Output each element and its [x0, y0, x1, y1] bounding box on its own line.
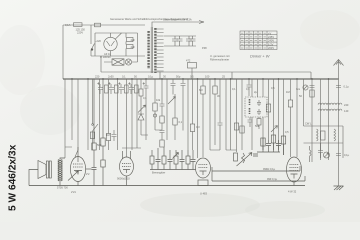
svg-text:0,1µ: 0,1µ	[344, 85, 350, 89]
wire transformer top	[60, 158, 65, 160]
trimmer arrow TP1	[271, 79, 278, 150]
svg-text:50k: 50k	[255, 124, 260, 128]
svg-text:U 100/30: U 100/30	[100, 55, 111, 59]
wire antenna drop	[338, 79, 340, 186]
wire drop x290	[290, 79, 292, 100]
svg-text:0,1A: 0,1A	[65, 23, 71, 27]
wire drop x78	[75, 79, 78, 157]
wire drop x312	[311, 79, 313, 162]
svg-text:10k: 10k	[156, 98, 161, 102]
capacitor C1 4uF	[126, 33, 133, 45]
resistor R8	[153, 79, 157, 130]
wire drop x252	[251, 79, 253, 150]
resistor R1	[188, 63, 197, 80]
resistor R2	[106, 79, 110, 150]
svg-text:140: 140	[344, 109, 349, 113]
svg-text:472: 472	[186, 59, 191, 63]
svg-text:0,5: 0,5	[271, 86, 275, 90]
wire right x343	[342, 126, 344, 158]
svg-text:245V: 245V	[268, 35, 274, 39]
resistor R4	[115, 85, 119, 93]
capacitor C20	[92, 168, 97, 186]
svg-text:2x50: 2x50	[108, 75, 114, 79]
resistor R17	[101, 160, 105, 186]
svg-text:0,3: 0,3	[196, 125, 200, 129]
resistor R21	[186, 150, 190, 170]
svg-text:9000±Ω/10: 9000±Ω/10	[117, 177, 130, 181]
wire drop x283	[283, 79, 285, 155]
transformer TR1 secondary	[154, 28, 156, 73]
svg-text:4µF: 4µF	[131, 45, 136, 49]
resistor R3	[105, 85, 109, 93]
resistor R20	[173, 150, 179, 170]
svg-text:999 0,1µ: 999 0,1µ	[267, 177, 278, 181]
svg-text:220V: 220V	[77, 31, 83, 35]
resistor R15	[92, 79, 96, 167]
svg-text:50p: 50p	[176, 75, 181, 79]
rectifier tube V1	[104, 37, 117, 50]
resistor R25	[213, 79, 217, 145]
resistor R29	[266, 104, 270, 112]
transformer TR1 primary	[147, 31, 149, 69]
wire drop x242	[241, 79, 243, 150]
svg-text:0,1: 0,1	[232, 87, 236, 91]
svg-text:CW L: CW L	[305, 122, 312, 126]
svg-text:4µF: 4µF	[131, 38, 136, 42]
capacitor C2 4uF	[126, 45, 133, 57]
tube V3	[120, 151, 134, 186]
wire drop x257	[257, 79, 259, 97]
svg-text:203V: 203V	[268, 46, 274, 50]
svg-text:6,3V: 6,3V	[268, 42, 274, 46]
wire drop x328	[328, 79, 330, 160]
resistor R14	[198, 180, 208, 186]
capacitor C21	[156, 148, 161, 170]
resistor R6	[135, 85, 139, 93]
wire drop x303	[303, 79, 305, 126]
svg-text:Skalenlampen 6,3V 0,3A: Skalenlampen 6,3V 0,3A	[163, 18, 192, 22]
capacitor C22	[168, 150, 173, 170]
capacitor C4	[177, 36, 183, 46]
wire drop x126	[126, 79, 128, 157]
wire drop x132	[131, 79, 133, 150]
resistor R13	[321, 131, 326, 140]
svg-text:Gm: Gm	[296, 87, 300, 91]
svg-text:500: 500	[97, 143, 102, 147]
wire transformer bottom	[59, 181, 61, 186]
coil bank L1	[318, 103, 342, 111]
capacitor C5	[186, 36, 192, 46]
wire secondary bottom	[160, 72, 311, 79]
wire drop x226	[225, 79, 227, 150]
volume pot P1	[234, 153, 259, 167]
capacitor C23	[180, 150, 185, 170]
svg-text:0,1: 0,1	[179, 120, 183, 124]
fuse F1	[74, 23, 83, 27]
wire drop x278	[278, 79, 280, 150]
wire drop x197	[197, 79, 199, 158]
wire bottom bus	[29, 185, 305, 187]
capacitor C26	[276, 140, 281, 152]
diode D1	[138, 105, 146, 135]
wire tie mid2	[210, 149, 237, 151]
resistor R23	[271, 135, 275, 152]
resistor R24	[281, 136, 285, 155]
wire drop x167	[166, 79, 168, 140]
capacitor C6	[190, 36, 196, 46]
resistor R12	[310, 90, 314, 97]
capacitor C29	[336, 154, 341, 156]
svg-text:2'21: 2'21	[71, 190, 76, 194]
resistor R5	[125, 85, 129, 93]
switch S1	[92, 79, 98, 150]
capacitor C10	[129, 84, 134, 94]
switch S0	[91, 25, 95, 56]
wire drop x137	[136, 79, 138, 148]
resistor R7	[139, 79, 143, 114]
wire drop x203	[202, 79, 204, 86]
resistor R27	[234, 123, 238, 130]
resistor R10	[160, 140, 164, 147]
coil L2	[317, 129, 319, 141]
output transformer TR2	[58, 160, 62, 182]
wire drop x220	[218, 79, 223, 150]
wire heater rows	[164, 36, 196, 46]
wire coupling tie	[150, 169, 196, 171]
wire feedback line 2	[212, 167, 305, 181]
svg-text:0,1: 0,1	[246, 87, 250, 91]
resistor urdox RU	[104, 56, 138, 65]
tuning gang G1	[324, 152, 330, 158]
svg-text:5705 700: 5705 700	[57, 186, 68, 190]
speaker LS1	[38, 161, 51, 179]
wire left frame	[62, 25, 64, 79]
wire taps	[157, 29, 164, 71]
svg-text:0,1µ: 0,1µ	[148, 75, 154, 79]
capacitor C28	[112, 130, 117, 141]
svg-text:U. gemessen mit: U. gemessen mit	[210, 54, 230, 58]
wire mains top line	[63, 24, 145, 26]
wire drop x88	[87, 79, 89, 150]
capacitor C18	[336, 86, 341, 88]
coil L3	[334, 129, 336, 141]
svg-text:P48: P48	[202, 46, 207, 50]
svg-text:0,1: 0,1	[122, 75, 126, 79]
svg-text:999Ω 0,1µ: 999Ω 0,1µ	[263, 167, 276, 171]
antenna A1	[334, 60, 344, 80]
capacitor C15	[181, 79, 186, 131]
svg-text:Dinkel + W: Dinkel + W	[250, 54, 271, 59]
capacitor C25	[266, 140, 271, 152]
svg-text:240V: 240V	[268, 39, 274, 43]
svg-text:~220: ~220	[95, 39, 101, 43]
svg-text:2'2: 2'2	[86, 172, 90, 176]
wire arrow to dial lamps	[152, 22, 204, 27]
wire AF tie	[257, 151, 280, 153]
trimmer Gm	[303, 85, 308, 90]
capacitor C11 electrolytic	[144, 79, 149, 140]
wire cap right	[137, 33, 139, 56]
IF transformer IF1	[245, 97, 267, 117]
capacitor C12	[160, 79, 165, 116]
svg-text:240: 240	[344, 103, 349, 107]
transformer TR1 core	[151, 27, 153, 73]
capacitor C24	[191, 150, 196, 170]
wire drop x210	[209, 79, 211, 150]
svg-text:U 483: U 483	[200, 192, 207, 196]
svg-text:6,3: 6,3	[199, 88, 203, 92]
svg-text:100: 100	[205, 75, 210, 79]
plug P0	[95, 23, 101, 27]
svg-text:2µ: 2µ	[254, 90, 257, 94]
resistor R11	[190, 79, 194, 150]
svg-text:5 W 646/2x/3x: 5 W 646/2x/3x	[8, 144, 19, 211]
capacitor C27	[247, 79, 252, 96]
resistor R19	[162, 147, 166, 170]
svg-text:+V: +V	[268, 31, 272, 35]
svg-text:Bremsgitter: Bremsgitter	[152, 171, 165, 175]
wire drop x268	[268, 79, 270, 140]
capacitor C19	[318, 143, 323, 160]
capacitor C13	[160, 131, 165, 141]
wire drop x65	[64, 79, 66, 158]
capacitor C3	[172, 36, 178, 46]
resistor R16	[101, 79, 105, 160]
wire speaker down	[29, 170, 38, 186]
svg-text:1M: 1M	[286, 90, 290, 94]
feedback arrow	[68, 171, 79, 181]
resistor R26	[90, 132, 94, 139]
wire drop x117	[117, 79, 119, 150]
wire tie mid1	[65, 130, 162, 148]
capacitor C17	[310, 86, 315, 88]
capacitor C8	[109, 84, 114, 94]
wire anode row	[95, 33, 138, 56]
svg-text:0,5: 0,5	[190, 75, 194, 79]
IF sub cluster	[248, 117, 262, 129]
tube V2 output	[70, 147, 85, 186]
resistor R30	[168, 94, 177, 140]
svg-text:0,5: 0,5	[285, 130, 289, 134]
bus junction dots	[71, 78, 329, 80]
capacitor C14	[171, 79, 176, 95]
wire anode diag	[115, 33, 121, 39]
svg-text:4 W 32: 4 W 32	[288, 190, 297, 194]
wire right h143	[304, 142, 344, 144]
wire drop x320	[320, 79, 322, 158]
wire drop x236	[236, 79, 238, 152]
resistor R18	[150, 150, 154, 170]
resistor R28	[240, 126, 244, 133]
svg-text:1M: 1M	[106, 133, 110, 137]
wire drop x188	[187, 79, 189, 150]
coil L4	[310, 146, 312, 162]
wire right h126	[304, 125, 344, 127]
wire drop x72	[71, 79, 73, 140]
voltage table	[240, 31, 277, 50]
svg-text:0,1µ: 0,1µ	[344, 153, 350, 157]
resistor R9	[160, 116, 164, 130]
wire power bottom	[101, 56, 160, 72]
svg-text:0,1: 0,1	[143, 96, 147, 100]
wire tube bottom	[110, 51, 112, 56]
wire drop x230	[230, 79, 232, 150]
wire drop x263	[262, 79, 264, 150]
wire drop x297	[296, 79, 298, 157]
wire main bus	[63, 78, 339, 80]
capacitor C9	[119, 84, 124, 94]
ground GND	[334, 186, 344, 190]
tube V5	[287, 157, 302, 186]
polarity plus marks	[97, 82, 145, 84]
wire cathode row	[91, 55, 145, 57]
resistor R22	[261, 138, 265, 152]
capacitor C7	[98, 84, 103, 94]
wire drop x97	[99, 79, 101, 150]
wire feedback line 1	[212, 166, 300, 171]
table cell marks	[241, 33, 266, 48]
tube V4	[196, 158, 211, 178]
svg-text:Röhrenvoltmeter: Röhrenvoltmeter	[210, 58, 229, 62]
svg-text:220: 220	[95, 75, 100, 79]
wire tube V2 grid	[86, 168, 92, 170]
